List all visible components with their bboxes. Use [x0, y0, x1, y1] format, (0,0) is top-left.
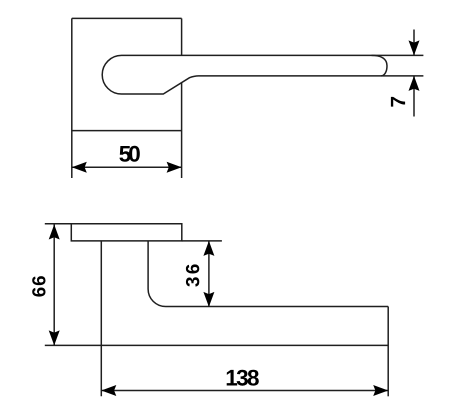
66-dim extension line top [45, 223, 72, 225]
36-dim extension line top [182, 240, 222, 242]
36-dim top arrowhead (points up) [203, 241, 214, 256]
side view: grip bottom edge + 66-dim extension [45, 344, 388, 346]
36-dim bottom arrowhead (points down) [203, 292, 214, 307]
top view: square rose left edge + 50-dim extension [71, 18, 73, 178]
side view: grip right edge + 138-dim extension [387, 307, 389, 397]
50-dim right arrowhead [167, 162, 182, 173]
36-dim line [208, 241, 210, 307]
top view: square rose right edge upper segment [181, 18, 183, 55]
top view: square rose bottom edge [72, 130, 182, 132]
7-dim extension line top [372, 54, 424, 56]
top view: square rose right edge lower segment + 50-dim extension [181, 83, 183, 178]
7-dim bottom arrowhead (points up) [409, 76, 420, 91]
7-dim top arrowhead (points down) [409, 40, 420, 55]
7-dim line upper segment [413, 30, 415, 56]
top view: square rose top edge [72, 17, 182, 19]
50-dim left arrowhead [72, 162, 87, 173]
side view: neck right edge with curve into grip top [148, 241, 388, 307]
66-dim bottom arrowhead (points down) [49, 330, 60, 345]
138-dim left arrowhead [101, 385, 116, 396]
dimension text 7 (rotated) [391, 97, 405, 107]
50-dim line [72, 166, 182, 168]
side view: rose plate [71, 224, 182, 241]
top view: lever handle outline [102, 55, 387, 94]
138-dim line [101, 390, 388, 392]
dimension text 66 (rotated) [32, 276, 45, 297]
dimension text 138 [227, 370, 259, 386]
66-dim top arrowhead (points up) [49, 225, 60, 240]
dimension text 50 [119, 146, 139, 162]
66-dim line [53, 225, 55, 346]
7-dim line lower segment [413, 76, 415, 117]
dimension text 36 (rotated) [186, 264, 199, 286]
side view: neck left edge + 138-dim extension [100, 241, 102, 396]
138-dim right arrowhead [373, 385, 388, 396]
7-dim extension line bottom [381, 75, 423, 77]
